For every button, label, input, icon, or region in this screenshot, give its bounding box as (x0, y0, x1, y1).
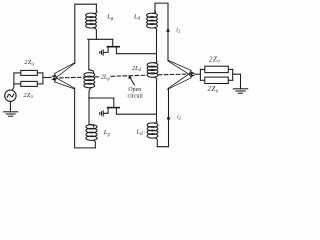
wire load to ground (233, 74, 241, 89)
wire top right corner (155, 3, 168, 61)
wire left outer rail top segment (75, 4, 97, 63)
ground (M2 source, rotated) (100, 111, 103, 116)
node load left bus (199, 69, 201, 80)
wire gate node horizontal (top) (88, 38, 113, 40)
resistor 2Z0 (load top) (205, 66, 229, 72)
svg-text:Lg: Lg (106, 13, 114, 21)
inductor L_g (top left) (86, 4, 97, 39)
taper arm lower-right (168, 74, 192, 89)
current arrow i2 (top, up) (166, 27, 170, 31)
inductor Ld (bottom right) (147, 121, 158, 147)
dashed symmetry line seg2 (95, 76, 100, 78)
inductor 2Ld (middle right) (147, 61, 158, 81)
feed arrowheads left (51, 75, 56, 78)
resistor 2Z0 (source bottom) (21, 81, 38, 86)
ground (source) (4, 112, 18, 116)
svg-text:Open: Open (128, 87, 141, 93)
resistor 2Z0 (load bottom) (205, 77, 229, 83)
svg-text:2Ld: 2Ld (132, 65, 142, 72)
svg-text:2Lg: 2Lg (101, 73, 111, 80)
wire load network feed (196, 73, 201, 75)
svg-text:2Z0: 2Z0 (208, 86, 219, 93)
node load right bus (232, 69, 234, 80)
transistor M2 (bottom MOSFET) (103, 107, 156, 114)
wire right inner rail upper (Ld to 2Ld) (156, 31, 158, 61)
taper arm upper-right (168, 60, 191, 74)
wire bottom right corner (157, 89, 168, 147)
dashed symmetry line seg1 (54, 76, 84, 79)
inductor Lg (bottom left) (86, 124, 97, 148)
dashed symmetry line seg4 (158, 73, 194, 76)
wire source to bus (11, 84, 14, 90)
wire bottom branch right (37, 83, 43, 85)
feed arrowheads right (191, 71, 196, 74)
current arrow i2 (bottom, down) (167, 117, 171, 121)
wire load top branch left (200, 68, 204, 70)
wire gate lead M1 (112, 39, 114, 46)
inductor Ld (top right) (147, 3, 158, 31)
annotation arrow to open circuit point (129, 75, 135, 85)
wire right inner rail lower (2Ld to bottom Ld) (156, 81, 158, 122)
taper arm upper-left (54, 63, 75, 78)
svg-text:Ld: Ld (136, 129, 144, 137)
svg-text:2Z0: 2Z0 (23, 92, 33, 99)
wire source to ground (9, 101, 11, 111)
node left bus (13, 73, 15, 84)
wire bottom branch left (14, 83, 21, 85)
inductor 2Lg (middle left) (84, 70, 95, 98)
wire gate node horizontal (bottom) (89, 97, 114, 99)
AC source VS1 (5, 90, 16, 101)
wire top branch right (37, 72, 43, 74)
svg-text:Lg: Lg (103, 129, 111, 137)
resistor 2Z0 (source top) (21, 70, 38, 75)
svg-text:2Z0: 2Z0 (209, 56, 220, 63)
svg-text:i2: i2 (176, 27, 181, 33)
wire load bottom branch right (228, 79, 232, 81)
svg-text:circuit: circuit (128, 94, 144, 100)
wire gate lead M2 (113, 98, 115, 107)
wire top branch left (14, 72, 21, 74)
node right bus (42, 73, 44, 84)
wire source network feed (43, 77, 51, 79)
ground (M1 source, rotated) (100, 50, 103, 55)
svg-text:i2: i2 (177, 114, 182, 120)
ground (load) (233, 89, 247, 93)
dashed symmetry line seg3 (111, 75, 147, 76)
wire gate-line to 2Lg (vertical) (88, 39, 90, 70)
svg-text:2Z0: 2Z0 (24, 59, 34, 66)
wire load top branch right (228, 68, 232, 70)
svg-text:Ld: Ld (133, 13, 141, 21)
wire 2Lg to bottom Lg vertical (88, 98, 90, 124)
wire left outer rail bottom segment (75, 88, 96, 148)
taper arm lower-left (54, 78, 74, 89)
transistor M1 (top MOSFET) (103, 46, 156, 54)
wire load bottom branch left (200, 79, 204, 81)
